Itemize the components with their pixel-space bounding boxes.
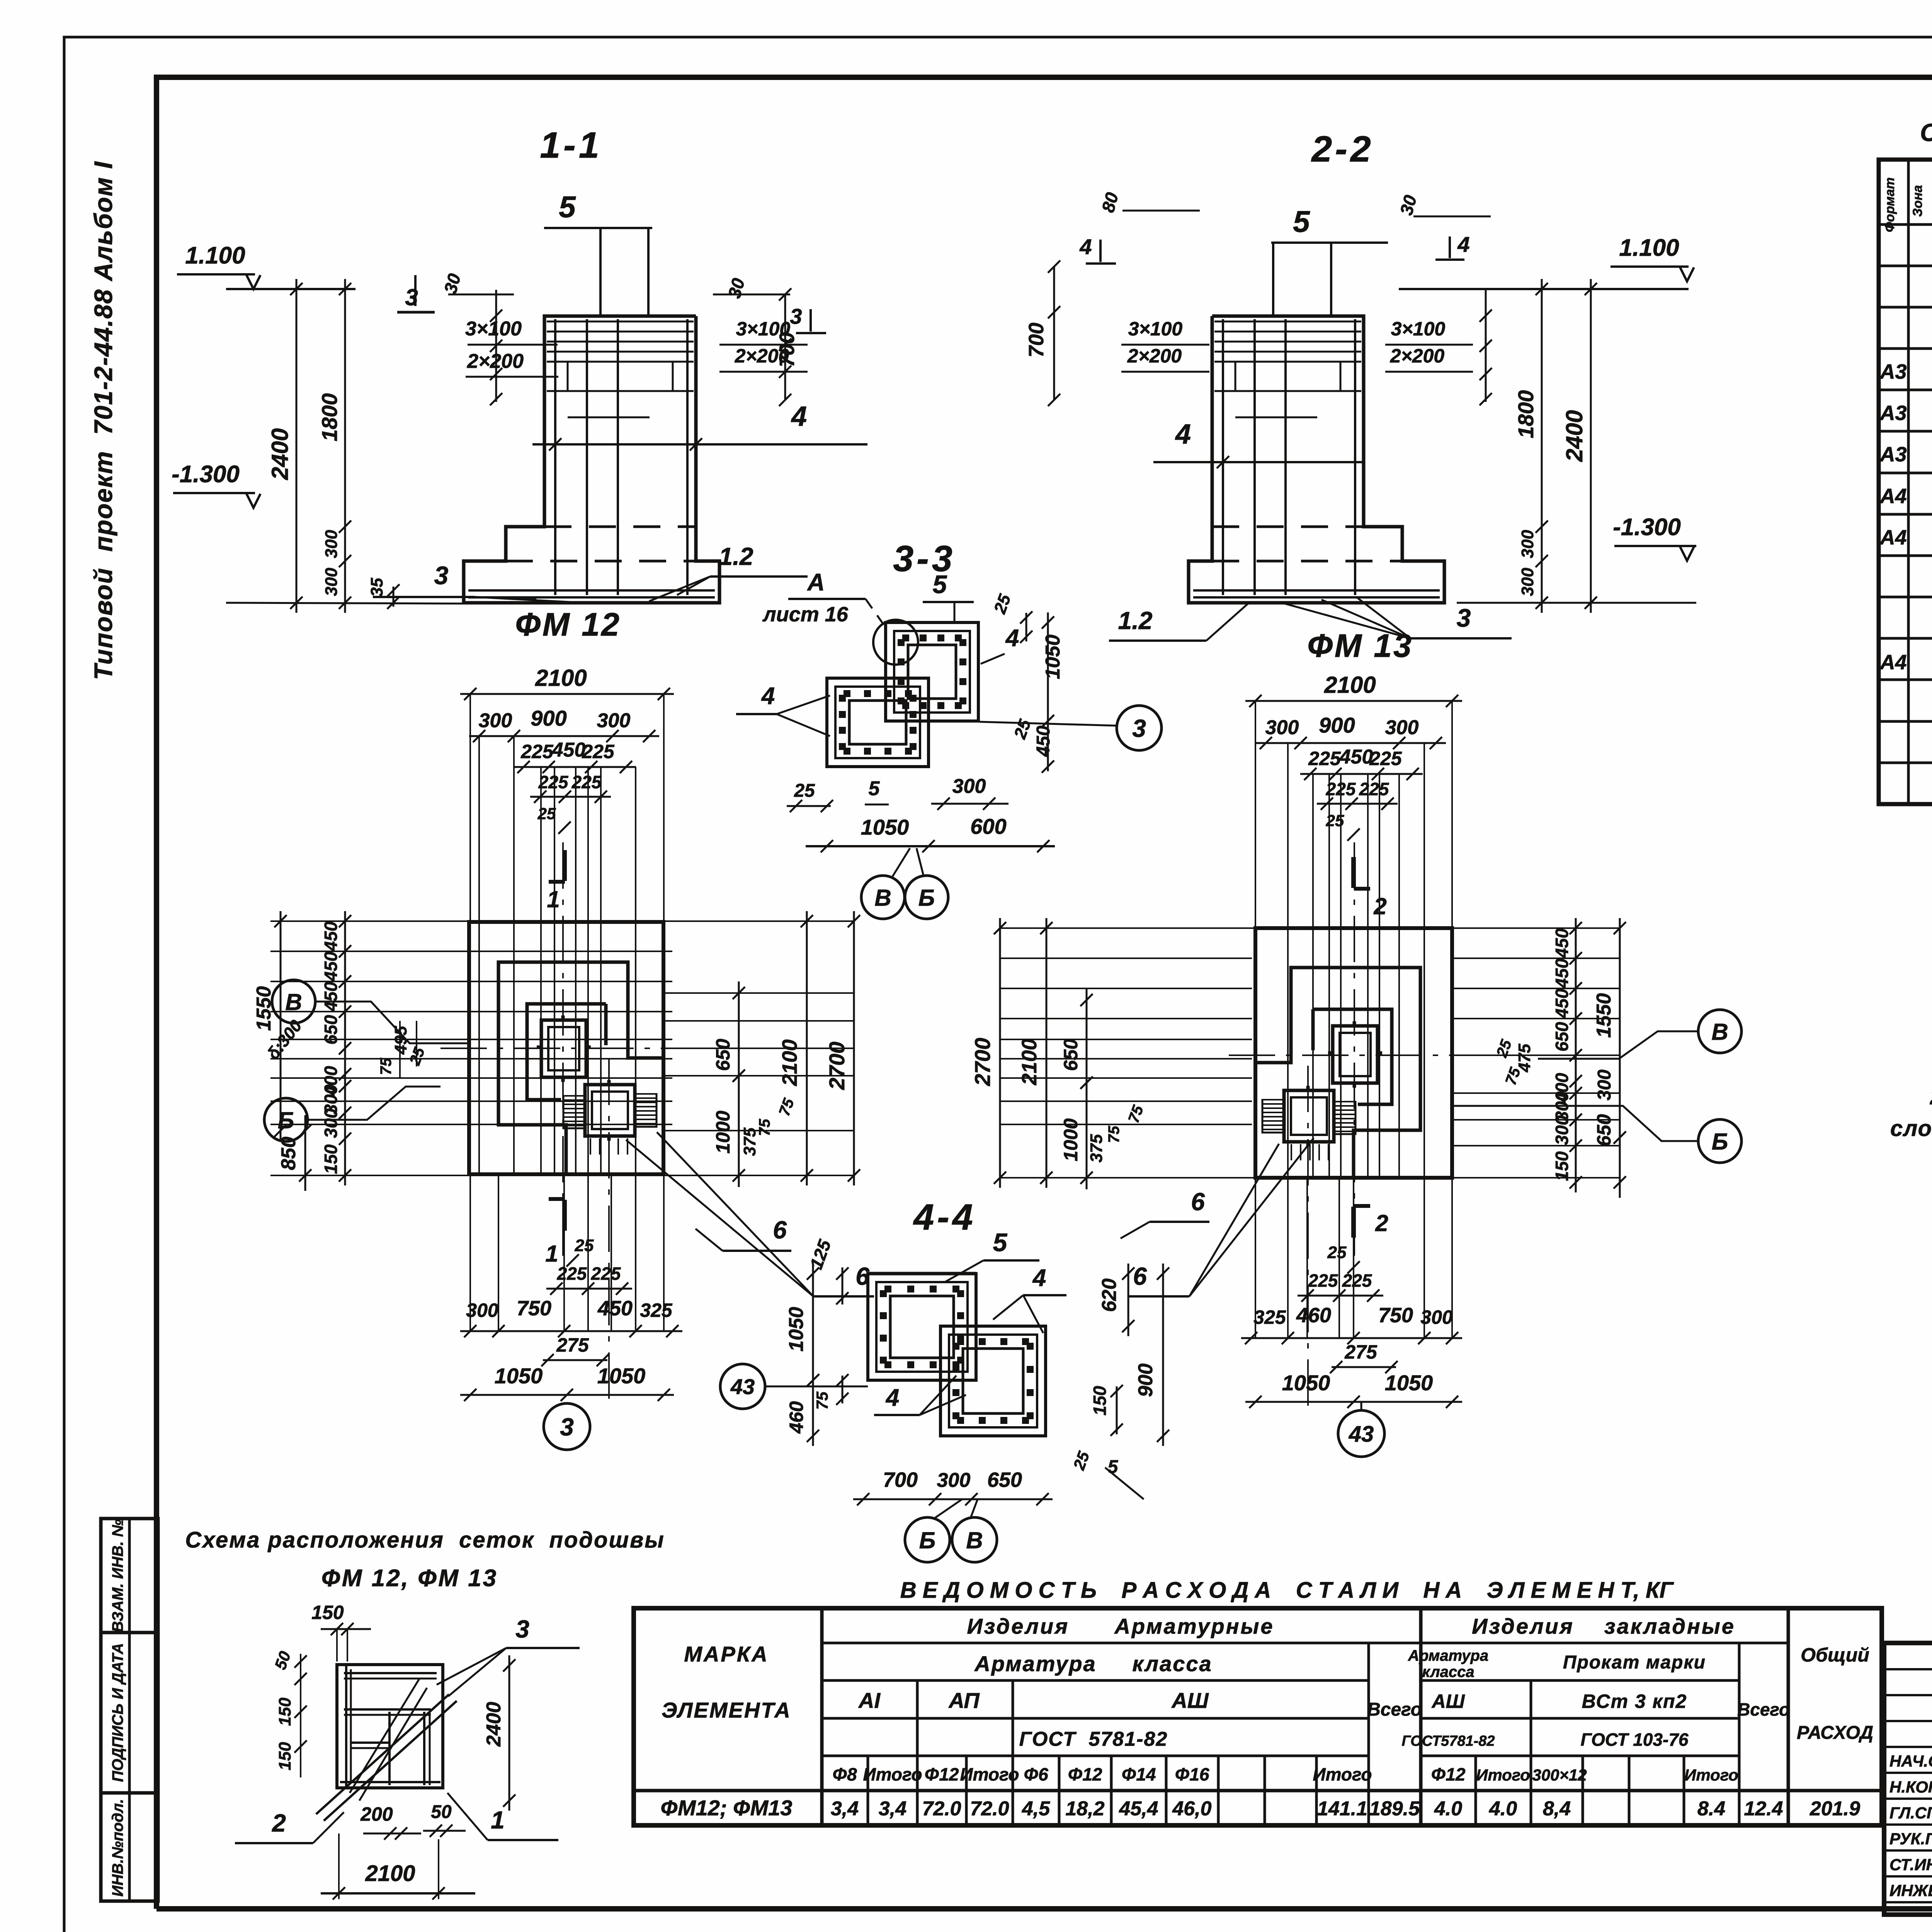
svg-text:300: 300	[937, 1469, 971, 1492]
fm13 witness lines top crossing	[1287, 743, 1289, 1178]
svg-text:1.2: 1.2	[719, 543, 753, 570]
svg-text:150: 150	[276, 1697, 294, 1726]
svg-text:А: А	[807, 569, 825, 596]
svg-text:3: 3	[515, 1615, 529, 1643]
fm13 upper step outline	[1313, 1009, 1392, 1104]
svg-text:6: 6	[773, 1216, 787, 1244]
svg-text:Φ6: Φ6	[1024, 1764, 1048, 1784]
svg-text:475: 475	[1515, 1044, 1534, 1073]
svg-text:450: 450	[597, 1297, 633, 1320]
section 1-1 dim 2400	[296, 279, 298, 613]
svg-text:4: 4	[1175, 419, 1191, 450]
svg-text:Φ16: Φ16	[1175, 1764, 1209, 1784]
svg-text:Б: Б	[919, 1527, 935, 1553]
svg-text:225: 225	[571, 772, 602, 792]
svg-text:1550: 1550	[1593, 993, 1615, 1038]
svg-text:класса: класса	[1422, 1663, 1474, 1680]
svg-text:75: 75	[756, 1119, 773, 1136]
detail 4-4 outline emphasis	[868, 1272, 976, 1276]
detail 4-4 axis circles B V	[905, 1517, 950, 1562]
svg-text:25: 25	[1327, 1243, 1347, 1262]
svg-text:В: В	[1711, 1019, 1728, 1045]
svg-text:АШ: АШ	[1431, 1690, 1465, 1712]
svg-text:300: 300	[1594, 1070, 1615, 1100]
svg-text:1.100: 1.100	[1619, 235, 1679, 261]
svg-text:4: 4	[1005, 625, 1019, 651]
svg-text:1.2: 1.2	[1118, 607, 1153, 634]
svg-text:650: 650	[1060, 1039, 1082, 1071]
section 1-1 dim 1800-300-300	[344, 279, 346, 613]
svg-text:3×100: 3×100	[465, 318, 522, 340]
section 1-1 bar mark 4 leader	[532, 443, 867, 446]
svg-text:6: 6	[1191, 1188, 1205, 1216]
left margin stamp boxes	[101, 1519, 158, 1901]
svg-text:25: 25	[575, 1236, 594, 1255]
svg-text:ИНЖЕН.: ИНЖЕН.	[1889, 1881, 1932, 1900]
title block frame	[1884, 1643, 1932, 1915]
svg-text:700: 700	[1025, 323, 1048, 357]
svg-text:1050: 1050	[1385, 1371, 1433, 1395]
svg-text:4: 4	[791, 401, 807, 432]
svg-text:Арматура: Арматура	[1408, 1647, 1488, 1664]
svg-text:300: 300	[321, 1108, 341, 1138]
svg-text:ФМ 12, ФМ 13: ФМ 12, ФМ 13	[321, 1565, 498, 1592]
section 2-2 foundation body	[1189, 316, 1444, 603]
vedomost grid	[634, 1608, 1882, 1825]
svg-text:225: 225	[1369, 748, 1402, 769]
svg-text:450: 450	[1033, 726, 1054, 757]
svg-text:450: 450	[1552, 988, 1572, 1019]
svg-text:Прокат марки: Прокат марки	[1563, 1652, 1706, 1673]
svg-text:Итого: Итого	[1313, 1764, 1372, 1784]
svg-text:35: 35	[367, 578, 386, 597]
svg-text:225: 225	[538, 772, 569, 792]
svg-text:900: 900	[531, 706, 566, 730]
svg-text:700: 700	[883, 1468, 918, 1492]
svg-text:Всего: Всего	[1737, 1699, 1790, 1719]
svg-text:4,5: 4,5	[1022, 1798, 1050, 1820]
specification table grid	[1879, 160, 1932, 804]
svg-text:1050: 1050	[1042, 634, 1064, 679]
svg-text:В: В	[966, 1527, 983, 1553]
svg-text:150: 150	[1552, 1151, 1572, 1181]
svg-text:460: 460	[1296, 1304, 1331, 1327]
svg-text:Зона: Зона	[1910, 185, 1925, 217]
svg-text:225: 225	[520, 741, 554, 762]
svg-text:225: 225	[1342, 1270, 1372, 1291]
svg-text:2400: 2400	[483, 1702, 505, 1747]
svg-text:46,0: 46,0	[1172, 1798, 1211, 1820]
detail 4-4 glasses	[868, 1274, 1046, 1436]
fm13 glass 1	[1328, 1021, 1382, 1088]
svg-text:450: 450	[552, 739, 586, 761]
fm13 glass 2 with mesh hatch	[1284, 1086, 1334, 1146]
fm12 upper step outline	[527, 1004, 606, 1100]
svg-text:3: 3	[434, 561, 449, 590]
svg-text:АШ: АШ	[1171, 1688, 1209, 1713]
svg-text:450: 450	[1339, 746, 1373, 768]
fm13 axis circle V right	[1698, 1010, 1742, 1053]
svg-text:Типовой проект 701-2-44.88 А: Типовой проект 701-2-44.88 Альбом I	[89, 161, 117, 680]
svg-text:В: В	[285, 989, 302, 1015]
svg-text:150: 150	[321, 1144, 341, 1174]
fm12 glass 2 with mesh hatch	[585, 1080, 635, 1141]
fm12 axis circle B left	[264, 1098, 308, 1141]
fm12 witness lines left	[270, 951, 672, 952]
svg-text:1800: 1800	[317, 393, 342, 442]
fm13 right dims	[1575, 918, 1577, 1192]
svg-text:2700: 2700	[970, 1038, 995, 1087]
svg-text:225: 225	[1359, 779, 1389, 799]
svg-text:460: 460	[786, 1401, 807, 1434]
svg-text:300: 300	[322, 568, 341, 596]
svg-text:-300×12: -300×12	[1527, 1766, 1587, 1784]
svg-text:3×100: 3×100	[1128, 318, 1183, 340]
svg-text:450: 450	[1552, 928, 1572, 958]
svg-text:3: 3	[560, 1413, 574, 1441]
svg-text:300: 300	[597, 709, 631, 732]
svg-text:ВСт 3 кп2: ВСт 3 кп2	[1582, 1690, 1687, 1712]
svg-text:НАЧ.ОТД.: НАЧ.ОТД.	[1889, 1752, 1932, 1770]
fm12 centerlines	[562, 842, 564, 1267]
svg-text:450: 450	[321, 981, 341, 1012]
svg-text:25: 25	[1326, 811, 1344, 830]
svg-text:1.100: 1.100	[185, 242, 245, 269]
svg-text:4: 4	[1457, 232, 1469, 257]
svg-text:300: 300	[1265, 716, 1299, 739]
svg-text:1050: 1050	[495, 1364, 543, 1388]
svg-text:ФМ12; ФМ13: ФМ12; ФМ13	[661, 1796, 793, 1820]
fm13 section mark 2 top	[1351, 857, 1356, 888]
svg-text:Общий: Общий	[1801, 1644, 1869, 1666]
svg-text:141.1: 141.1	[1317, 1798, 1367, 1820]
svg-text:900: 900	[1134, 1364, 1157, 1397]
svg-text:300: 300	[952, 775, 986, 798]
svg-text:А4: А4	[1879, 485, 1906, 508]
svg-text:200: 200	[360, 1803, 393, 1825]
fm12 middle step outline	[498, 962, 663, 1174]
svg-text:3,4: 3,4	[879, 1798, 906, 1820]
fm13 witness lines right	[1452, 927, 1620, 929]
fm12 section mark 1 bottom	[562, 1200, 567, 1231]
svg-text:300: 300	[1385, 716, 1419, 739]
section 2-2 bar mark 4 leader	[1153, 461, 1363, 463]
svg-text:Б: Б	[918, 885, 935, 911]
svg-text:А4: А4	[1879, 526, 1906, 549]
svg-text:АI: АI	[858, 1688, 881, 1713]
svg-text:225: 225	[1308, 748, 1341, 769]
section 2-2 dim 1800-300-300	[1541, 279, 1543, 613]
fm12 witness lines right	[664, 920, 854, 922]
svg-text:Изделия Арматурные: Изделия Арматурные	[967, 1614, 1274, 1638]
svg-text:2-2: 2-2	[1311, 129, 1374, 170]
svg-text:8,4: 8,4	[1543, 1798, 1571, 1820]
svg-text:ВЗАМ. ИНВ. №: ВЗАМ. ИНВ. №	[109, 1519, 126, 1633]
svg-text:3,4: 3,4	[831, 1798, 859, 1820]
svg-text:Итого: Итого	[1684, 1766, 1738, 1784]
svg-text:4: 4	[1032, 1265, 1046, 1291]
svg-text:5: 5	[993, 1228, 1008, 1257]
svg-text:225: 225	[582, 741, 615, 762]
svg-text:2100: 2100	[1324, 672, 1376, 698]
svg-text:РУК.ГР.: РУК.ГР.	[1889, 1830, 1932, 1848]
svg-text:Арматура класса: Арматура класса	[974, 1651, 1212, 1676]
svg-text:225: 225	[1308, 1270, 1338, 1291]
svg-text:В Е Д О М О С Т Ь Р А С Х О: В Е Д О М О С Т Ь Р А С Х О Д А С Т А Л …	[900, 1578, 1674, 1603]
svg-text:1: 1	[547, 886, 560, 912]
svg-text:275: 275	[1344, 1341, 1378, 1363]
svg-text:Б: Б	[1712, 1129, 1728, 1155]
svg-text:5: 5	[1293, 204, 1310, 238]
svg-text:4: 4	[885, 1384, 899, 1411]
svg-text:275: 275	[556, 1334, 589, 1356]
svg-text:900: 900	[1319, 713, 1355, 737]
svg-text:4-4: 4-4	[913, 1197, 976, 1238]
svg-text:5: 5	[559, 190, 576, 224]
svg-text:ФМ 13: ФМ 13	[1307, 628, 1413, 664]
svg-text:325: 325	[640, 1299, 673, 1321]
svg-text:2: 2	[1373, 893, 1386, 919]
svg-text:620: 620	[1098, 1279, 1121, 1312]
svg-text:лист 16: лист 16	[762, 603, 849, 626]
svg-text:75: 75	[1105, 1126, 1122, 1143]
svg-text:150: 150	[1090, 1386, 1110, 1415]
svg-text:Φ8: Φ8	[832, 1764, 857, 1784]
svg-text:Н.КОНТР.: Н.КОНТР.	[1889, 1778, 1932, 1796]
svg-text:43: 43	[730, 1374, 755, 1399]
fm12 witness lines vertical crossing	[478, 736, 480, 1175]
svg-text:150: 150	[276, 1742, 294, 1770]
fm12 glass 1	[537, 1015, 591, 1082]
svg-text:201.9: 201.9	[1810, 1798, 1860, 1820]
svg-text:300: 300	[322, 530, 341, 558]
svg-text:А3: А3	[1879, 360, 1906, 383]
svg-text:72.0: 72.0	[970, 1798, 1009, 1820]
fm12 section mark 1 top	[562, 850, 567, 881]
svg-text:2: 2	[1375, 1210, 1388, 1236]
svg-text:1050: 1050	[597, 1364, 646, 1388]
svg-text:2400: 2400	[1561, 410, 1587, 462]
svg-text:300: 300	[1420, 1306, 1453, 1328]
section 2-2 dim 2400	[1590, 279, 1592, 613]
svg-text:5: 5	[869, 777, 880, 800]
svg-text:12.4: 12.4	[1744, 1798, 1783, 1820]
svg-text:1-1: 1-1	[540, 125, 602, 166]
svg-text:6: 6	[1133, 1262, 1147, 1290]
fm13 centerlines	[1354, 842, 1355, 1267]
fm13 witness lines left	[1000, 957, 1252, 959]
svg-text:8.4: 8.4	[1697, 1798, 1725, 1820]
svg-text:2×200: 2×200	[1390, 345, 1445, 367]
svg-text:45,4: 45,4	[1119, 1798, 1158, 1820]
svg-text:450: 450	[321, 951, 341, 981]
svg-text:1: 1	[545, 1241, 558, 1267]
section 1-1 foundation body	[464, 316, 719, 603]
svg-text:450: 450	[321, 921, 341, 951]
svg-text:А3: А3	[1879, 443, 1906, 466]
svg-text:ГОСТ 103-76: ГОСТ 103-76	[1581, 1730, 1689, 1750]
svg-text:Б: Б	[278, 1107, 294, 1133]
fm12 witness lines bottom	[469, 1175, 471, 1331]
svg-text:-1.300: -1.300	[1613, 514, 1681, 541]
fm13 axis circle 43 bottom	[1338, 1410, 1384, 1457]
svg-text:Итого: Итого	[960, 1764, 1019, 1784]
svg-text:225: 225	[557, 1264, 587, 1284]
mesh schema bars	[340, 1665, 440, 1788]
svg-text:300: 300	[1518, 568, 1537, 596]
svg-text:650: 650	[1552, 1022, 1572, 1051]
svg-text:РАСХОД: РАСХОД	[1797, 1723, 1873, 1743]
svg-text:Φ14: Φ14	[1122, 1764, 1156, 1784]
svg-text:В: В	[874, 885, 891, 911]
svg-text:1800: 1800	[1514, 390, 1538, 439]
svg-text:25: 25	[794, 781, 815, 801]
svg-text:2×200: 2×200	[1127, 345, 1182, 367]
svg-text:МАРКА: МАРКА	[684, 1642, 769, 1666]
svg-text:650: 650	[712, 1039, 734, 1071]
fm13 outer slab outline	[1255, 928, 1452, 1178]
svg-text:Φ12: Φ12	[925, 1764, 959, 1784]
svg-text:5: 5	[933, 570, 947, 599]
detail 3-3 callout circle A	[873, 620, 918, 665]
svg-text:Изделия закладные: Изделия закладные	[1472, 1614, 1735, 1638]
svg-text:3: 3	[1132, 714, 1146, 742]
svg-text:ИНВ.№подл.: ИНВ.№подл.	[109, 1799, 126, 1896]
svg-text:43: 43	[1349, 1422, 1374, 1447]
svg-text:2. При бетонировании фундам: 2. При бетонировании фундаментов обеспеч…	[1930, 1084, 1932, 1109]
svg-text:СТ.ИНЖ.: СТ.ИНЖ.	[1889, 1855, 1932, 1874]
svg-text:3: 3	[1457, 604, 1471, 632]
svg-text:300: 300	[1518, 530, 1537, 558]
fm13 middle step outline	[1255, 968, 1420, 1178]
svg-text:Итого: Итого	[863, 1764, 922, 1784]
svg-text:А3: А3	[1879, 401, 1906, 425]
svg-text:АП: АП	[948, 1688, 980, 1713]
detail 3-3 circle axis 3	[1117, 706, 1162, 750]
svg-text:300: 300	[479, 709, 512, 732]
svg-text:325: 325	[1253, 1306, 1286, 1328]
svg-text:650: 650	[987, 1468, 1022, 1492]
svg-text:4.0: 4.0	[1489, 1798, 1517, 1820]
svg-text:Схема расположения сеток под: Схема расположения сеток подошвы	[185, 1527, 665, 1553]
svg-text:2×200: 2×200	[467, 350, 524, 372]
svg-text:ГОСТ5781-82: ГОСТ5781-82	[1401, 1733, 1495, 1749]
svg-text:4: 4	[761, 683, 775, 709]
fm12 outer slab outline	[469, 922, 663, 1174]
svg-text:2100: 2100	[535, 665, 587, 691]
svg-text:4: 4	[1079, 235, 1092, 259]
svg-text:150: 150	[311, 1602, 344, 1623]
svg-text:А4: А4	[1879, 651, 1906, 674]
fm13 axis circle B right	[1698, 1119, 1742, 1163]
fm12 axis circle 3 bottom	[544, 1403, 590, 1450]
svg-text:750: 750	[517, 1297, 551, 1320]
mesh schema diagonals	[316, 1694, 449, 1814]
svg-text:ГОСТ 5781-82: ГОСТ 5781-82	[1019, 1728, 1168, 1750]
svg-text:2: 2	[272, 1809, 286, 1837]
svg-text:ЭЛЕМЕНТА: ЭЛЕМЕНТА	[662, 1698, 791, 1722]
svg-text:1050: 1050	[1282, 1371, 1330, 1395]
fm13 witness lines bottom	[1255, 1178, 1256, 1338]
svg-text:-1.300: -1.300	[172, 461, 240, 488]
svg-text:25: 25	[537, 804, 556, 823]
svg-text:2400: 2400	[267, 428, 293, 480]
svg-text:Φ12: Φ12	[1068, 1764, 1102, 1784]
svg-text:1000: 1000	[712, 1111, 734, 1153]
svg-text:1: 1	[491, 1806, 505, 1834]
fm12 axis circle V left	[272, 980, 315, 1023]
mesh schema outline	[337, 1665, 443, 1788]
svg-text:Итого: Итого	[1476, 1766, 1530, 1784]
svg-text:72.0: 72.0	[922, 1798, 961, 1820]
svg-text:600: 600	[970, 814, 1006, 838]
svg-text:3: 3	[790, 304, 802, 328]
svg-text:Формат: Формат	[1883, 177, 1897, 232]
svg-text:75: 75	[813, 1391, 831, 1410]
svg-text:50: 50	[431, 1802, 452, 1822]
svg-text:375: 375	[1087, 1134, 1106, 1163]
detail 3-3 axis circles B and B2	[861, 876, 905, 919]
svg-text:ГЛ.СПЕЦ: ГЛ.СПЕЦ	[1889, 1804, 1932, 1822]
svg-text:189.5: 189.5	[1369, 1798, 1420, 1820]
svg-text:750: 750	[1378, 1304, 1413, 1327]
svg-text:4.0: 4.0	[1434, 1798, 1462, 1820]
svg-text:650: 650	[1593, 1114, 1615, 1146]
detail 3-3 glasses	[827, 622, 978, 767]
svg-text:Всего: Всего	[1367, 1699, 1422, 1720]
svg-text:2100: 2100	[365, 1861, 415, 1886]
svg-text:225: 225	[1326, 779, 1356, 799]
svg-text:450: 450	[1552, 958, 1572, 988]
svg-text:225: 225	[591, 1264, 621, 1284]
svg-text:слой, указанный на чертеже: слой, указанный на чертеже.	[1890, 1116, 1932, 1141]
svg-text:75: 75	[378, 1058, 395, 1075]
svg-text:ПОДПИСЬ И ДАТА: ПОДПИСЬ И ДАТА	[109, 1643, 126, 1782]
fm13 section mark 2 bottom	[1351, 1207, 1356, 1238]
svg-text:Спецификация на монолитные фун: Спецификация на монолитные фундаменты ФМ…	[1920, 119, 1932, 146]
svg-text:3×100: 3×100	[1391, 318, 1446, 340]
svg-text:ФМ 12: ФМ 12	[515, 606, 621, 643]
svg-text:18,2: 18,2	[1065, 1798, 1104, 1820]
svg-text:1050: 1050	[785, 1307, 808, 1352]
detail 4-4 axis circle 43	[720, 1364, 765, 1409]
svg-text:Φ12: Φ12	[1431, 1764, 1466, 1784]
svg-text:1050: 1050	[861, 815, 909, 839]
svg-text:2100: 2100	[778, 1039, 801, 1086]
